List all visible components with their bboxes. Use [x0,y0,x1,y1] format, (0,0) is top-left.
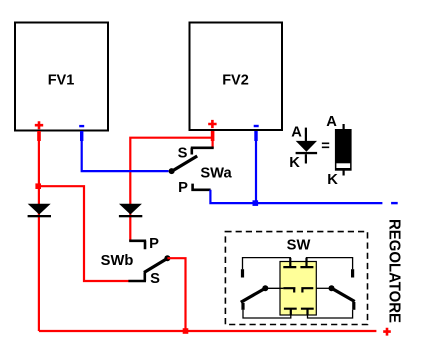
terminal bar upper-right [351,269,354,277]
svg-text:SWb: SWb [101,253,134,269]
node relay left pivot dot [262,285,268,291]
FV2 plus terminal [208,120,216,141]
wire FV1+ down to bottom rail [38,141,40,332]
terminal bar upper-left [241,269,244,277]
wire FV1- to SWa pivot [82,141,169,172]
relay right blade [332,288,355,301]
node blue junction FV2- on minus rail [253,200,259,206]
svg-text:A: A [291,125,302,141]
terminal bar lower-right [352,302,355,310]
legend diode anode lead [305,128,307,142]
diode D1 [28,204,51,218]
switch SWa S contact stub [191,148,214,155]
solar panel FV1 [15,23,108,131]
solar panel FV2 [190,23,283,131]
legend diode symbol [296,141,318,154]
FV1 minus terminal [79,126,84,141]
wire relay bottom-left [243,310,291,318]
svg-text:K: K [289,155,300,171]
wire branch J1 to SWb S contact [39,186,129,281]
svg-text:K: K [327,172,338,188]
switch SWb S contact stub [128,272,146,281]
switch SWa P contact stub [193,184,211,190]
svg-text:P: P [178,180,188,196]
svg-text:S: S [178,145,188,161]
switch SWb blade [144,258,167,272]
svg-text:FV2: FV2 [222,73,249,89]
wire relay top-left [243,258,291,270]
switch SWb P contact stub [129,241,146,250]
svg-text:SW: SW [287,238,311,254]
relay SW dashed enclosure [225,232,367,325]
svg-text:P: P [149,236,159,252]
FV2 minus terminal [254,126,259,141]
relay contact top-right [300,258,313,267]
FV1 plus terminal [35,121,43,141]
svg-text:SWa: SWa [200,166,232,182]
wire bottom rail [39,330,377,332]
svg-text:FV1: FV1 [48,73,75,89]
relay contact bottom-left [284,309,297,315]
relay contact bottom-right [301,309,314,315]
wire FV2+ to D2 anode [130,138,213,241]
package cathode lead [343,171,345,176]
node J1 junction on FV1+ wire [35,183,41,189]
label plus at regulator output [383,328,391,336]
relay contact mid-right [301,288,313,292]
node J2 junction on bottom rail [183,328,189,334]
svg-text:S: S [150,271,160,287]
wire FV2- down [255,141,257,203]
node SWb pivot dot [164,255,170,261]
svg-text:REGOLATORE: REGOLATORE [386,219,403,323]
switch SWa blade [172,156,197,171]
relay contact mid-left [283,288,295,292]
node relay right pivot dot [329,285,335,291]
wire relay mid-right to pivot [316,287,331,289]
terminal bar lower-left [241,303,244,310]
label minus at regulator input [391,202,398,204]
wire FV2+ stub down [212,141,214,149]
node SWa pivot dot [169,168,175,174]
package anode lead [343,124,345,129]
svg-text:A: A [326,114,337,130]
relay body yellow box [280,262,316,316]
wire relay mid-left to pivot [265,287,283,289]
wire SWa P to regulator minus [210,190,382,203]
wire SWb pivot to bottom rail junction [167,258,185,331]
legend diode cathode lead [305,154,307,163]
diode D2 [119,204,142,218]
wire relay bottom-right [308,310,353,318]
wire relay top-right [307,258,353,270]
diode package body [335,129,352,171]
relay contact top-left [283,258,296,267]
relay left blade [241,288,265,302]
svg-text:=: = [321,139,330,155]
